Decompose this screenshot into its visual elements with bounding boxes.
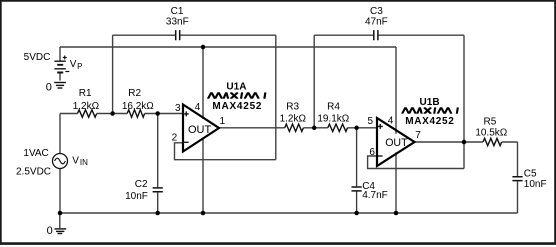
svg-text:3: 3 — [175, 103, 181, 114]
svg-text:OUT: OUT — [385, 137, 408, 149]
svg-text:19.1kΩ: 19.1kΩ — [317, 113, 349, 124]
svg-text:5: 5 — [368, 116, 374, 127]
svg-text:C1: C1 — [171, 6, 184, 17]
svg-text:33nF: 33nF — [166, 17, 189, 28]
svg-text:P: P — [77, 62, 82, 71]
svg-text:IN: IN — [80, 158, 88, 167]
svg-text:0: 0 — [46, 81, 52, 93]
svg-text:MAX4252: MAX4252 — [405, 116, 455, 127]
svg-text:2.5VDC: 2.5VDC — [16, 167, 51, 178]
svg-text:2: 2 — [172, 132, 178, 143]
svg-text:C2: C2 — [135, 179, 148, 190]
svg-text:V: V — [72, 155, 79, 166]
svg-text:C3: C3 — [370, 6, 383, 17]
svg-text:10nF: 10nF — [125, 191, 148, 202]
svg-text:R2: R2 — [128, 88, 141, 99]
svg-text:10nF: 10nF — [524, 179, 547, 190]
svg-text:7: 7 — [415, 130, 421, 141]
svg-text:10.5kΩ: 10.5kΩ — [475, 127, 507, 138]
svg-text:V: V — [70, 59, 77, 70]
svg-text:R3: R3 — [286, 102, 299, 113]
svg-text:C5: C5 — [524, 169, 537, 180]
svg-text:OUT: OUT — [188, 124, 212, 136]
svg-text:6: 6 — [369, 147, 375, 158]
svg-text:16.2kΩ: 16.2kΩ — [122, 101, 154, 112]
svg-text:U1B: U1B — [420, 97, 441, 108]
svg-text:1: 1 — [220, 116, 226, 127]
svg-text:U1A: U1A — [226, 82, 247, 93]
svg-text:4: 4 — [195, 102, 201, 113]
svg-text:1.2kΩ: 1.2kΩ — [280, 113, 307, 124]
svg-text:5VDC: 5VDC — [24, 52, 51, 63]
svg-text:1.2kΩ: 1.2kΩ — [73, 101, 100, 112]
svg-text:4.7nF: 4.7nF — [362, 190, 388, 201]
svg-text:MAX4252: MAX4252 — [212, 101, 262, 112]
svg-text:47nF: 47nF — [365, 17, 388, 28]
svg-text:4: 4 — [388, 116, 394, 127]
svg-text:R5: R5 — [484, 116, 497, 127]
svg-text:1VAC: 1VAC — [23, 148, 48, 159]
svg-text:0: 0 — [47, 225, 53, 237]
svg-text:R1: R1 — [79, 88, 92, 99]
svg-text:R4: R4 — [327, 102, 340, 113]
